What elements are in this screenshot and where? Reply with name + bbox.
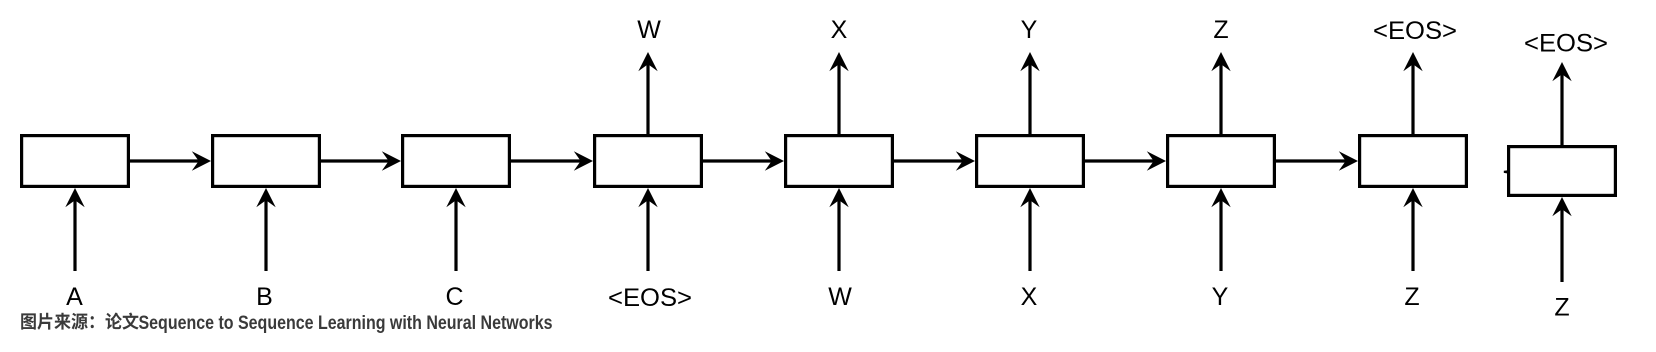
svg-text:X: X <box>1021 283 1038 311</box>
node label: input EOS <box>608 284 692 312</box>
wire: input arrow below cell8 <box>1403 188 1422 271</box>
node label: output EOS-2 <box>1524 30 1608 58</box>
node label: input B <box>256 283 273 311</box>
node label: input Y <box>1212 283 1229 311</box>
svg-text:Y: Y <box>1212 283 1229 311</box>
svg-text:B: B <box>256 283 273 311</box>
RNN cell box cell2 <box>213 136 320 187</box>
caption: image source line <box>21 313 552 334</box>
wire: output arrow above cell9 <box>1552 62 1571 145</box>
wire: input arrow below cell1 <box>65 188 84 271</box>
svg-text:C: C <box>445 283 463 311</box>
wire: horizontal arrow cell3 to cell4 <box>511 151 593 170</box>
svg-text:<EOS>: <EOS> <box>608 284 692 312</box>
RNN cell box cell6 <box>977 136 1084 187</box>
wire: input arrow below cell2 <box>256 188 275 271</box>
wire: input arrow below cell4 <box>638 188 657 271</box>
node label: input Z <box>1404 283 1419 311</box>
node label: output Z <box>1213 16 1228 44</box>
node label: output Y <box>1021 16 1038 44</box>
wire: horizontal arrow cell1 to cell2 <box>130 151 211 170</box>
node label: input A <box>66 283 83 311</box>
svg-text:A: A <box>66 283 83 311</box>
RNN cell box cell8 <box>1360 136 1467 187</box>
node label: output W <box>637 16 661 44</box>
RNN cell box cell5 <box>786 136 893 187</box>
svg-text:Z: Z <box>1213 16 1228 44</box>
node label: input W <box>828 283 852 311</box>
RNN cell box cell9 <box>1509 147 1616 196</box>
wire: output arrow above cell8 <box>1403 52 1422 134</box>
svg-text:<EOS>: <EOS> <box>1373 17 1457 45</box>
wire: input arrow below cell5 <box>829 188 848 271</box>
node label: output EOS-1 <box>1373 17 1457 45</box>
svg-text:W: W <box>637 16 661 44</box>
wire: horizontal arrow cell4 to cell5 <box>703 151 784 170</box>
wire: horizontal arrow cell5 to cell6 <box>894 151 975 170</box>
RNN cell box cell4 <box>595 136 702 187</box>
wire stub on left edge of cell9 <box>1504 170 1507 173</box>
node label: input Z-2 <box>1554 294 1569 322</box>
wire: output arrow above cell5 <box>829 52 848 134</box>
node label: input X <box>1021 283 1038 311</box>
svg-text:W: W <box>828 283 852 311</box>
wire: output arrow above cell4 <box>638 52 657 134</box>
RNN cell box cell1 <box>22 136 129 187</box>
svg-text:Sequence to Sequence Learning: Sequence to Sequence Learning with Neura… <box>139 313 553 334</box>
wire: input arrow below cell9 <box>1552 197 1571 282</box>
wire: horizontal arrow cell7 to cell8 <box>1276 151 1358 170</box>
svg-text:Z: Z <box>1554 294 1569 322</box>
wire: input arrow below cell7 <box>1211 188 1230 271</box>
node label: input C <box>445 283 463 311</box>
wire: horizontal arrow cell6 to cell7 <box>1085 151 1166 170</box>
wire: input arrow below cell6 <box>1020 188 1039 271</box>
wire: output arrow above cell6 <box>1020 52 1039 134</box>
svg-text:Z: Z <box>1404 283 1419 311</box>
wire: input arrow below cell3 <box>446 188 465 271</box>
svg-text:X: X <box>831 16 848 44</box>
wire: horizontal arrow cell2 to cell3 <box>321 151 401 170</box>
wire: output arrow above cell7 <box>1211 52 1230 134</box>
RNN cell box cell7 <box>1168 136 1275 187</box>
node label: output X <box>831 16 848 44</box>
RNN cell box cell3 <box>403 136 510 187</box>
svg-text:<EOS>: <EOS> <box>1524 30 1608 58</box>
svg-text:Y: Y <box>1021 16 1038 44</box>
